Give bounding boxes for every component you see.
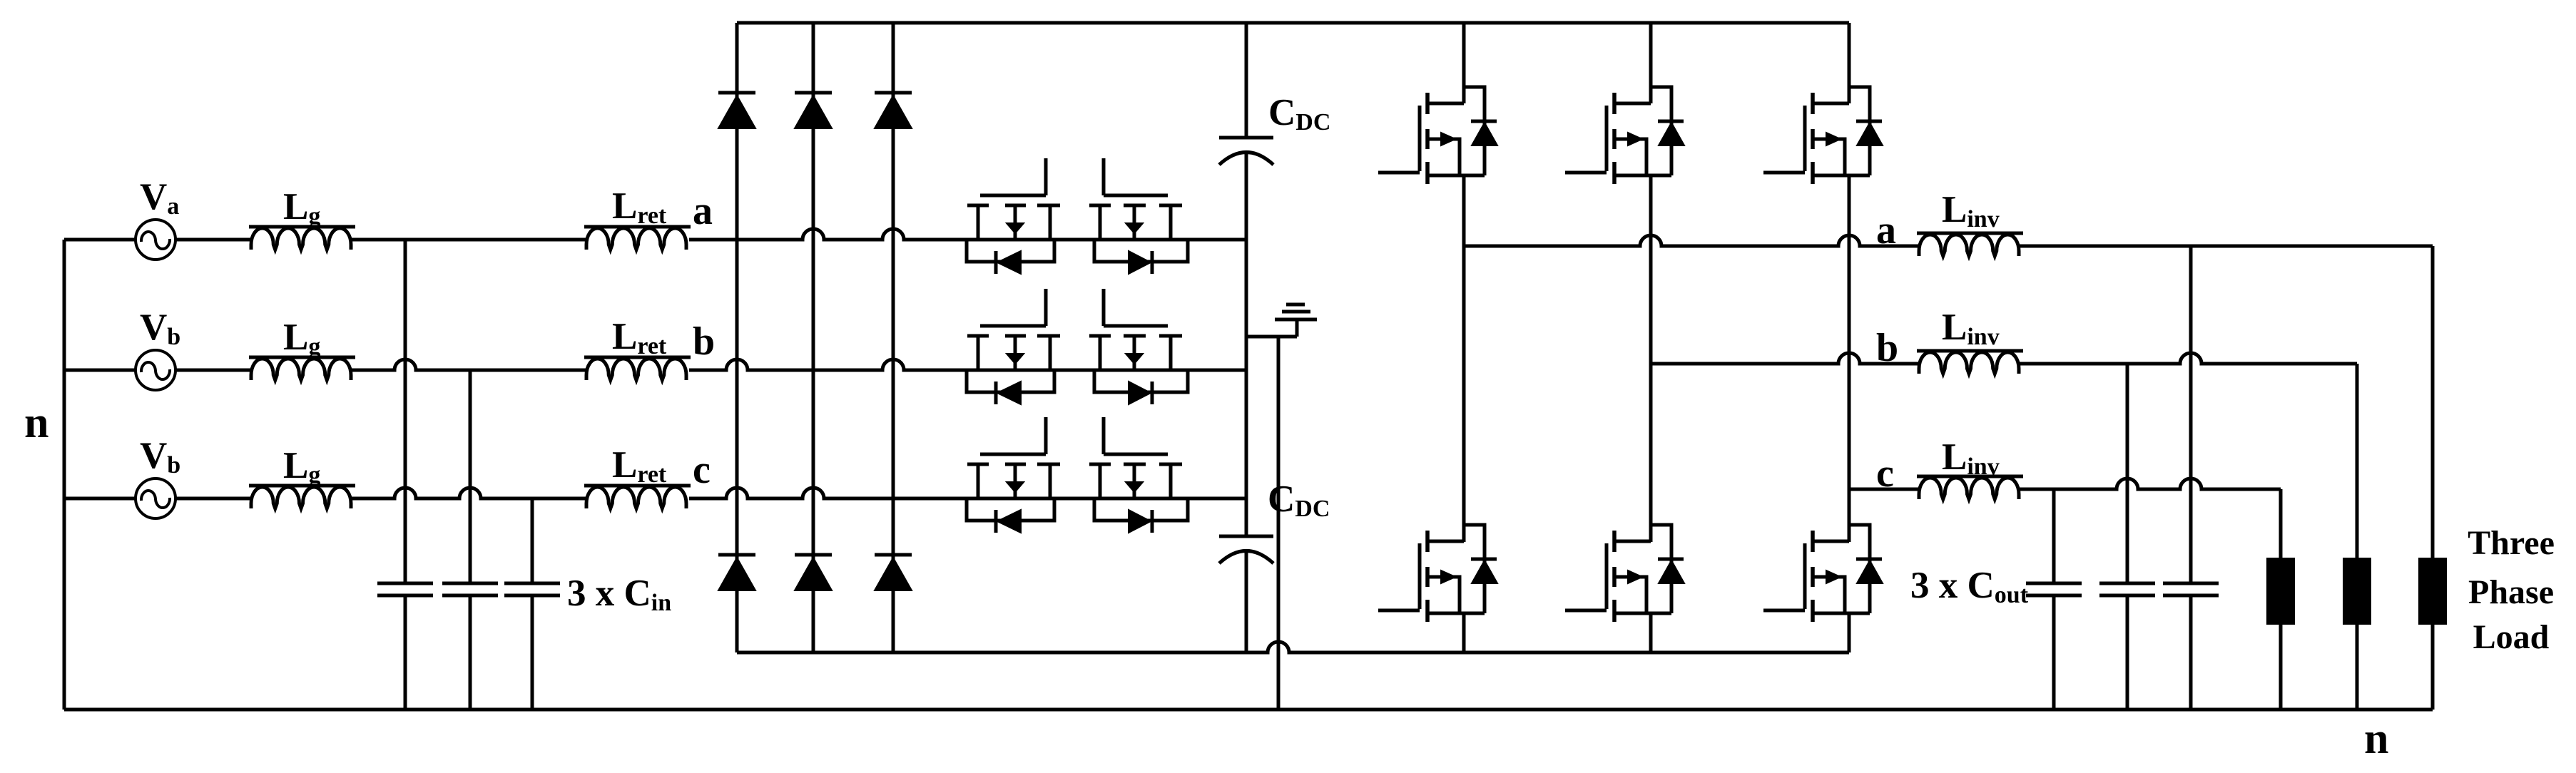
transistor Q5 (inverter bottom, phase b) bbox=[1616, 540, 1651, 543]
wire source to Lg phase b bbox=[175, 369, 251, 372]
transistor Q3 (inverter top, phase c) bbox=[1814, 102, 1849, 106]
bidirectional switch phase a right MOSFET bbox=[1102, 158, 1106, 195]
wire Q5 source to negative rail bbox=[1649, 613, 1653, 652]
wire DC midpoint vertical bbox=[1245, 153, 1248, 536]
AC source Vb phase b bbox=[136, 350, 175, 390]
wire rectifier leg a vertical bbox=[735, 23, 739, 652]
wire phase b down to load resistor bbox=[2356, 364, 2359, 558]
wire top bus to Q3 drain bbox=[1848, 23, 1851, 103]
inductor Linv phase b bbox=[1917, 349, 2023, 353]
svg-text:n: n bbox=[24, 399, 49, 447]
wire CDC bottom to negative rail bbox=[1245, 551, 1248, 652]
ground symbol bbox=[1275, 318, 1317, 322]
wire Lg to Lret phase b bbox=[351, 359, 586, 370]
wire ground stem bbox=[1295, 321, 1299, 337]
inductor Lret phase a bbox=[584, 225, 691, 229]
wire phase b down to Cout bbox=[2126, 364, 2129, 583]
svg-text:c: c bbox=[1876, 451, 1894, 496]
inductor Lg phase b bbox=[249, 356, 355, 359]
wire phase b down to Cin 2 bbox=[469, 370, 472, 583]
wire left neutral vertical n bbox=[63, 240, 66, 710]
wire top DC bus bbox=[737, 21, 1849, 25]
diode D4 (bottom) bbox=[718, 553, 755, 557]
svg-text:b: b bbox=[1876, 326, 1898, 370]
wire Cout phase a to neutral bus bbox=[2189, 595, 2193, 710]
wire phase a down to Cin 1 bbox=[404, 240, 407, 583]
bidirectional switch phase c right MOSFET bbox=[1102, 417, 1106, 454]
resistor load phase a bbox=[2418, 558, 2447, 625]
diode D6 (bottom) bbox=[875, 553, 912, 557]
wire phase a down to Cout bbox=[2189, 246, 2193, 583]
wire Linv to load phase a bbox=[2019, 245, 2433, 248]
wire Q2 source to Q5 drain bbox=[1649, 175, 1653, 542]
diode D3 (top) bbox=[875, 91, 912, 95]
wire Cin 3 to neutral bus bbox=[531, 595, 534, 710]
wire Lg to Lret phase c bbox=[351, 488, 586, 498]
bidirectional switch phase b right MOSFET bbox=[1102, 289, 1106, 326]
wire Lg to Lret phase a bbox=[351, 238, 586, 242]
AC source Va phase a bbox=[136, 220, 175, 260]
wire Q4 source to negative rail bbox=[1462, 613, 1466, 652]
wire Linv to load phase c bbox=[2019, 478, 2281, 489]
wire neutral to source phase a bbox=[64, 238, 136, 242]
wire Cin 1 to neutral bus bbox=[404, 595, 407, 710]
wire source to Lg phase c bbox=[175, 497, 251, 501]
wire inverter phase c output bbox=[1849, 488, 1919, 491]
svg-text:c: c bbox=[693, 448, 711, 492]
wire Q6 source to negative rail bbox=[1848, 613, 1851, 652]
inductor Linv phase c bbox=[1917, 475, 2023, 478]
wire rectifier leg b vertical bbox=[812, 23, 815, 652]
wire Cout phase b to neutral bus bbox=[2126, 595, 2129, 710]
svg-text:Load: Load bbox=[2473, 618, 2550, 656]
capacitor Cout phase b bbox=[2099, 582, 2155, 585]
wire phase a down to load resistor bbox=[2431, 246, 2435, 558]
wire phase c down to load resistor bbox=[2279, 489, 2283, 558]
capacitor Cin 1 bbox=[377, 582, 433, 585]
wire top bus to CDC top bbox=[1245, 23, 1248, 138]
diode D5 (bottom) bbox=[795, 553, 832, 557]
diode D1 (top) bbox=[718, 91, 755, 95]
capacitor Cin 2 bbox=[442, 582, 498, 585]
wire Q1 source to Q4 drain bbox=[1462, 175, 1466, 542]
capacitor CDC (top) bbox=[1219, 136, 1273, 140]
svg-text:Phase: Phase bbox=[2468, 573, 2554, 611]
wire phase b to bidirectional switch and DC midpoint bbox=[689, 359, 1246, 370]
capacitor Cout phase a bbox=[2163, 582, 2219, 585]
wire inverter phase a output bbox=[1464, 235, 1919, 246]
wire Q3 source to Q6 drain bbox=[1848, 175, 1851, 542]
wire negative DC rail bbox=[737, 642, 1849, 652]
inductor Lret phase b bbox=[584, 356, 691, 359]
wire inverter phase b output bbox=[1651, 353, 1919, 364]
wire ground to neutral bus bbox=[1277, 337, 1281, 710]
svg-text:a: a bbox=[1876, 208, 1896, 252]
svg-text:Three: Three bbox=[2468, 524, 2555, 562]
wire phase c to bidirectional switch and DC midpoint bbox=[689, 488, 1246, 498]
inductor Lg phase a bbox=[249, 225, 355, 229]
svg-text:n: n bbox=[2364, 715, 2388, 763]
svg-text:b: b bbox=[693, 319, 715, 364]
wire midpoint to ground tap bbox=[1246, 335, 1297, 339]
capacitor CDC (bottom) bbox=[1219, 535, 1273, 538]
wire load phase a to neutral bus bbox=[2431, 625, 2435, 710]
wire load phase c to neutral bus bbox=[2279, 625, 2283, 710]
inductor Lret phase c bbox=[584, 484, 691, 488]
bidirectional switch phase b left MOSFET bbox=[1044, 289, 1048, 326]
wire neutral to source phase b bbox=[64, 369, 136, 372]
wire Cout phase c to neutral bus bbox=[2052, 595, 2056, 710]
inductor Lg phase c bbox=[249, 484, 355, 488]
transistor Q4 (inverter bottom, phase a) bbox=[1429, 540, 1464, 543]
wire phase a to bidirectional switch and DC midpoint bbox=[689, 229, 1246, 240]
transistor Q2 (inverter top, phase b) bbox=[1616, 102, 1651, 106]
wire rectifier leg c vertical bbox=[892, 23, 895, 652]
wire top bus to Q1 drain bbox=[1462, 23, 1466, 103]
wire phase c down to Cout bbox=[2052, 489, 2056, 583]
resistor load phase c bbox=[2266, 558, 2295, 625]
transistor Q6 (inverter bottom, phase c) bbox=[1814, 540, 1849, 543]
wire Linv to load phase b bbox=[2019, 353, 2357, 364]
wire phase c down to Cin 3 bbox=[531, 498, 534, 583]
wire Cin 2 to neutral bus bbox=[469, 595, 472, 710]
bidirectional switch phase a left MOSFET bbox=[1044, 158, 1048, 195]
AC source Vb phase c bbox=[136, 478, 175, 518]
diode D2 (top) bbox=[795, 91, 832, 95]
transistor Q1 (inverter top, phase a) bbox=[1429, 102, 1464, 106]
resistor load phase b bbox=[2343, 558, 2371, 625]
wire bottom neutral bus n bbox=[64, 708, 2433, 712]
svg-text:a: a bbox=[693, 189, 713, 233]
bidirectional switch phase c left MOSFET bbox=[1044, 417, 1048, 454]
wire neutral to source phase c bbox=[64, 497, 136, 501]
wire source to Lg phase a bbox=[175, 238, 251, 242]
capacitor Cin 3 bbox=[504, 582, 560, 585]
wire load phase b to neutral bus bbox=[2356, 625, 2359, 710]
inductor Linv phase a bbox=[1917, 232, 2023, 235]
capacitor Cout phase c bbox=[2026, 582, 2082, 585]
wire top bus to Q2 drain bbox=[1649, 23, 1653, 103]
